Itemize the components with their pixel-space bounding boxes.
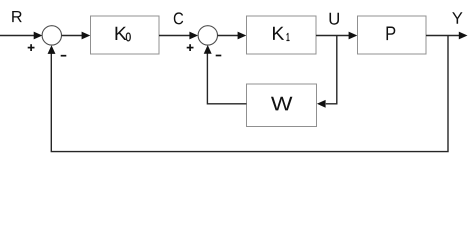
- wire S1 to block K0: [62, 32, 91, 40]
- summing junction S1: [42, 26, 61, 45]
- wire K1 to block P: [316, 32, 357, 40]
- plus sign at S1: [28, 44, 35, 51]
- signal label C: [174, 12, 183, 24]
- plus sign at S2: [187, 44, 194, 51]
- wire K0 to summing junction S2: [159, 32, 198, 40]
- signal label Y: [452, 12, 462, 24]
- minus sign at S1: [61, 55, 67, 57]
- summing junction S2: [198, 26, 217, 45]
- wire R input into summing junction S1: [0, 32, 42, 40]
- wire Y feedback loop into S1: [48, 36, 448, 152]
- block K1: [247, 16, 317, 54]
- wire W output up into S2: [204, 45, 247, 104]
- block K0: [91, 16, 160, 54]
- signal label R: [12, 11, 22, 22]
- block W: [247, 84, 317, 127]
- wire S2 to block K1: [218, 32, 247, 40]
- block P: [358, 16, 427, 54]
- signal label U: [330, 13, 340, 25]
- wire P to output Y: [426, 32, 468, 40]
- minus sign at S2: [216, 55, 222, 57]
- wire U branch down into W: [317, 36, 337, 108]
